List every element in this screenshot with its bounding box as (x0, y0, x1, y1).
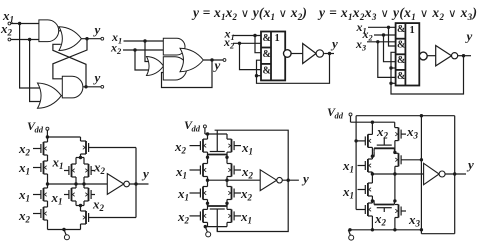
AOI block outline (c4) (396, 23, 420, 85)
svg-text:y: y (141, 166, 149, 181)
wire x3 branch to cell4 (c4) (378, 42, 396, 78)
chain segment T3 T4 left (c5) (47, 184, 49, 188)
stub Tb right to node2 (c7) (393, 151, 395, 154)
inverter N4 (c6) (260, 170, 277, 191)
svg-text:dd: dd (192, 124, 201, 134)
svg-text:y: y (301, 171, 309, 186)
node pass top right (c6) (225, 156, 228, 159)
AND gate A4 bottom (163, 57, 186, 80)
OR gate O1 (59, 27, 81, 51)
node feedback cell3 tap (c4) (389, 66, 392, 69)
feedback ring (c6) (215, 130, 289, 180)
left chain PDN segments (c6) (207, 180, 209, 186)
chain Td-midrail (c7) (371, 172, 373, 174)
feedback left vertical (c7) (355, 116, 357, 210)
svg-text:1: 1 (275, 33, 280, 44)
chain segment T1-T2 (c5) (47, 137, 49, 142)
node on x2 wire (28, 38, 31, 41)
circuit 5: CMOS transistor latch, 2 inputs (0, 0, 149, 240)
node y (c4) (462, 54, 465, 57)
node3 left (c7) (371, 199, 374, 202)
node y (c3) (328, 52, 331, 55)
stub Tg left (c7) (372, 200, 374, 202)
bottom rail (c5) (48, 229, 81, 231)
node Vdd rail (c6) (206, 132, 209, 135)
transistor T8 gate x1 (c5) (64, 194, 69, 196)
right chain segments (c6) (226, 134, 228, 139)
node Vdd rail (c7) (371, 121, 374, 124)
transistor Te gate x1 (c7) (358, 189, 366, 191)
wire bubble to inverter (c3) (291, 53, 303, 55)
transistor Ti gate x3 (c7) (401, 210, 406, 212)
wire inverter to y (c5) (129, 183, 148, 185)
AND gate A1 (39, 20, 59, 42)
transistor T1 gate x2 (c5) (33, 148, 41, 150)
node y top (85, 37, 88, 40)
output terminal y (c2) (223, 59, 226, 62)
bracket top of pair T5 T6 (c5) (76, 157, 84, 159)
stub Tg right (c7) (393, 200, 396, 202)
feedback wire y to cells (c3) (257, 54, 330, 84)
chain Tc-node2 (c7) (394, 141, 396, 153)
node Vdd rail (c5) (46, 135, 49, 138)
chain node3-Tf (c7) (371, 201, 373, 203)
node pass bottom right (c6) (225, 202, 228, 205)
svg-text:y: y (213, 58, 221, 73)
transistor Tg horizontal gate x2 (c7) (383, 208, 385, 212)
svg-text:&: & (263, 65, 271, 76)
node on x1 wire (18, 22, 21, 25)
inverter N2 (c4) (436, 46, 452, 66)
wire feedback to cell3 (c3) (257, 75, 262, 77)
wire O2 output to AND gate A2 (61, 95, 63, 97)
wire x1 to block (c4) (368, 26, 396, 28)
wire A1 output to OR gate O1 (59, 30, 63, 32)
node feedback cell4 tap (c4) (389, 82, 392, 85)
svg-text:1: 1 (410, 25, 415, 36)
chain segment bracket-T10 (c5) (80, 206, 82, 212)
chain segment T2-midrail (c5) (47, 174, 49, 184)
node pass top left (c6) (206, 156, 209, 159)
chain segment T10-bottom (c5) (80, 224, 82, 230)
node ground (c6) (204, 225, 207, 228)
Vdd rail (c6) (205, 133, 227, 135)
OR gate O4 output stage (180, 48, 203, 71)
node mid rail right (c6) (225, 179, 228, 182)
circuit 6: CMOS gate with feedback ring, 2 inputs (0, 0, 309, 237)
bottom rail / ground rail (c7) (349, 229, 422, 231)
node feedback cell3 tap (c3) (255, 74, 258, 77)
node y (c6) (287, 179, 290, 182)
wire feedback to cell3 (c4) (391, 67, 396, 69)
Vdd rail (c7) (351, 121, 395, 123)
wire inverter to y (c4) (458, 55, 471, 57)
mid rail (c6) (208, 179, 261, 181)
circuit 1: AND-OR latch, inputs x1 x2, outputs y and y (0, 8, 104, 108)
transistor T2 gate x1 (c5) (33, 167, 41, 169)
svg-text:&: & (397, 24, 405, 35)
OR gate O3 small (147, 57, 164, 76)
wire x2 to AND gate A3 (123, 49, 163, 51)
transistor M6 gate x2 mirrored (c6) (234, 192, 241, 194)
transistor Th gate feedback (c7) (401, 159, 421, 161)
wire inverter to y (c3) (324, 53, 334, 55)
stub T5 (c5) (75, 158, 77, 165)
chain Te-node3 (c7) (371, 196, 373, 201)
wire bubble to inverter (c4) (427, 55, 436, 57)
transistor T9 gate x2 (c5) (91, 194, 95, 196)
transistor M8 gate x1 mirrored (c6) (234, 215, 241, 217)
node bracket top (c5) (79, 156, 82, 159)
transistor T10 gate feedback (c5) (89, 217, 136, 219)
node ground (c7) (348, 228, 351, 231)
node feedback gate tap Th (c7) (420, 158, 423, 161)
node on x2 wire (c3) (238, 42, 241, 45)
stub Tb left to node1 (c7) (372, 152, 374, 157)
chain Th-midrail (c7) (394, 166, 396, 174)
right chain PDN segments (c6) (226, 180, 228, 186)
wire x2 to block (c4) (374, 34, 396, 36)
output inversion bubble (c3) (284, 50, 292, 58)
pass transistor Mbot gate feedback (c6) (216, 209, 218, 232)
svg-text:&: & (397, 55, 405, 66)
svg-text:y: y (93, 22, 101, 37)
chain Ti-bottomrail (c7) (394, 218, 396, 230)
AND gate A3 top (163, 38, 185, 55)
chain node2-Th (c7) (394, 151, 396, 154)
output terminal y bottom (101, 85, 104, 88)
wire Vdd to rail (c7) (350, 116, 352, 122)
node on x2 wire (c2) (133, 48, 136, 51)
node3 right (c7) (393, 199, 396, 202)
transistor T3 gate x1 (c5) (33, 194, 41, 196)
node y (c7) (453, 172, 456, 175)
feedback wire y to cells (c4) (391, 52, 464, 94)
node feedback bottom crossing (c7) (420, 228, 423, 231)
feedback mid branch (c7) (420, 116, 422, 160)
chain rail corner to Tc (c7) (394, 122, 396, 127)
output inversion bubble (c4) (419, 52, 427, 60)
node ground (c5) (62, 228, 65, 231)
wire feedback to cell4 (c4) (391, 82, 396, 84)
node mid rail right (c7) (393, 172, 396, 175)
wire x2 to AND gate (11, 39, 39, 41)
mid rail (c5) (48, 183, 108, 185)
wire A2 output to terminal y bottom (83, 86, 101, 88)
ground symbol (c7) (348, 230, 350, 235)
wire x1 branch to cell2 (c4) (389, 27, 396, 46)
input terminal x1 (8, 22, 11, 25)
feedback wire y-bottom to OR gate O1 (cross) (53, 44, 86, 87)
svg-text:dd: dd (35, 125, 44, 135)
feedback wire y to AND A4 (c2) (162, 60, 213, 88)
wire O4 output to y (c2) (203, 59, 223, 61)
Vdd rail (c5) (48, 136, 81, 138)
inverter N3 (c5) (107, 174, 124, 195)
svg-text:y = x1x2x3 ∨ y(x1 ∨ x2 ∨ x3): y = x1x2x3 ∨ y(x1 ∨ x2 ∨ x3) (317, 5, 477, 22)
bracket bottom of pair T8 T9 (c5) (76, 205, 84, 207)
input terminal x2 (8, 38, 11, 41)
wire x2 branch to OR gate O3 (135, 50, 149, 70)
node on x1 wire (c4) (387, 26, 390, 29)
wire inverter to y (c6) (282, 179, 299, 181)
node y (c5) (134, 182, 137, 185)
node on x2 wire (c4) (382, 33, 385, 36)
stub T9 (c5) (83, 184, 85, 188)
chain Tf-bottomrail (c7) (371, 216, 373, 230)
left chain segments (c6) (207, 134, 209, 139)
chain Ta-node1 (c7) (371, 147, 373, 156)
node2 (c7) (393, 151, 396, 154)
feedback right vertical (c7) (454, 116, 456, 234)
node mid rail T5 (c5) (74, 182, 77, 185)
node on x3 wire (c4) (376, 40, 379, 43)
wire x2 branch to cell3 (c3) (240, 43, 262, 69)
stub T6 (c5) (83, 158, 85, 165)
circuit 4: IEC and-or-invert block with inverter, 3 inputs (355, 20, 473, 94)
bottom rail (c6) (204, 226, 227, 228)
wire Vdd to rail (c5) (46, 130, 48, 137)
wire x1 branch to cell2 (c3) (255, 36, 261, 53)
wire x2 branch down to OR gate (30, 40, 42, 102)
mid rail (c7) (372, 173, 423, 175)
chain midrail-node3R (c7) (394, 174, 396, 201)
node mid rail left (c6) (206, 179, 209, 182)
node bottom rail right (c7) (393, 228, 396, 231)
feedback top rail (c7) (356, 115, 455, 117)
node on x1 wire (c2) (143, 39, 146, 42)
svg-text:y: y (330, 36, 338, 51)
inverter N1 (c3) (303, 44, 316, 64)
chain node1-Td (c7) (371, 156, 373, 159)
wire x1 to block cell1 (c3) (233, 35, 261, 37)
node feedback left gate tap (c7) (354, 139, 357, 142)
feedback vertical (c5) (135, 148, 137, 218)
svg-text:y: y (93, 70, 101, 85)
svg-text:&: & (263, 33, 271, 44)
svg-text:y: y (465, 29, 473, 44)
wire O1 output to terminal y (81, 38, 100, 40)
AOI block outline (c3) (261, 32, 285, 81)
feedback mid vertical lower (c7) (420, 160, 422, 234)
chain segment T7-bracket (c5) (80, 154, 82, 158)
chain segment rail-T7 (c5) (80, 137, 82, 141)
svg-text:dd: dd (335, 111, 344, 121)
circuit 2: AND-OR circuit with feedback, y = x1x2 + y(x1+x2) (110, 30, 226, 88)
node on x1 wire (c3) (253, 34, 256, 37)
wire x2 branch to cell3 (c4) (384, 35, 396, 62)
svg-text:y: y (466, 157, 474, 172)
wire Vdd to rail (c6) (204, 128, 206, 134)
node1 (c7) (371, 155, 374, 158)
svg-text:&: & (263, 49, 271, 60)
wire x1 branch to OR gate O3 (145, 41, 149, 62)
block divider column (c4) (404, 23, 406, 85)
transistor M1 gate x2 (c6) (190, 145, 201, 147)
transistor T6 gate x2 (c5) (91, 170, 95, 172)
svg-text:&: & (397, 40, 405, 51)
AND gate A2 (62, 76, 83, 98)
wire x1 to AND gate (11, 23, 39, 25)
feedback bottom rail (c7) (421, 233, 454, 235)
node y (c2) (210, 58, 213, 61)
circuit 3: IEC and-or-invert block with inverter, 2 inputs (223, 26, 338, 83)
wire x2 to block cell1 (c3) (233, 42, 261, 44)
node y bottom (84, 85, 87, 88)
inverter N5 (c7) (424, 163, 440, 184)
node bottom rail left (c7) (371, 228, 374, 231)
wire inverter to y (c7) (445, 173, 466, 175)
transistor M3 gate x1 (c6) (190, 169, 201, 171)
block divider column (c3) (270, 32, 272, 81)
transistor T7 gate feedback (c5) (89, 147, 136, 149)
transistor Tb horizontal gate x2 (c7) (383, 139, 385, 146)
svg-text:y = x1x2 ∨ y(x1 ∨ x2): y = x1x2 ∨ y(x1 ∨ x2) (191, 5, 307, 22)
transistor Tf gate feedback (c7) (356, 209, 365, 211)
pass transistor Mtop gate feedback (c6) (216, 130, 218, 151)
node mid rail left (c7) (371, 172, 374, 175)
transistor Tc gate x3 (c7) (401, 133, 406, 135)
transistor Td gate x1 (c7) (358, 165, 366, 167)
transistor M2 gate x1 mirrored (c6) (234, 145, 241, 147)
wire x3 to block (c4) (367, 41, 396, 43)
block cell dividers (c3) (261, 47, 271, 49)
transistor M4 gate x2 mirrored (c6) (234, 169, 241, 171)
transistor M7 gate x2 (c6) (190, 215, 201, 217)
node mid rail T6 (c5) (82, 182, 85, 185)
chain midrail-Te (c7) (371, 174, 373, 183)
node pass bottom left (c6) (206, 202, 209, 205)
ground symbol (c6) (205, 227, 207, 232)
transistor Ta gate feedback (c7) (356, 140, 365, 142)
stub T8 (c5) (75, 184, 77, 188)
wire x1 to AND gate A3 (124, 40, 164, 42)
output terminal y top (101, 37, 104, 40)
node feedback top (c7) (420, 114, 423, 117)
transistor M5 gate x1 (c6) (190, 192, 201, 194)
wire x1 branch down to OR gate (20, 24, 41, 89)
feedback wire y-top to AND gate A2 (cross) (53, 39, 87, 79)
ground symbol (c5) (64, 230, 66, 235)
svg-text:&: & (397, 71, 405, 82)
stub pass top (c6) (207, 156, 209, 159)
OR gate O2 (38, 83, 62, 108)
node bracket bottom (c5) (79, 204, 82, 207)
node mid rail left (c5) (46, 182, 49, 185)
transistor T5 gate x1 (c5) (64, 170, 69, 172)
chain rail-Ta (c7) (371, 122, 373, 134)
block cell dividers (c4) (396, 38, 406, 40)
transistor T4 gate x2 (c5) (33, 213, 41, 215)
